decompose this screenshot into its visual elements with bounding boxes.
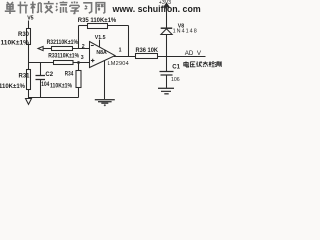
label R30 value 110K±1%	[1, 41, 30, 47]
capacitor C2	[36, 76, 46, 80]
wire diode branch up	[166, 35, 168, 57]
op-amp N8A triangle	[90, 42, 116, 68]
resistor R35	[88, 24, 108, 29]
label C2 value 104	[41, 82, 50, 88]
svg-text:C2: C2	[45, 72, 53, 78]
svg-text:110K±1%: 110K±1%	[0, 84, 26, 90]
feedback wire vertical left	[78, 26, 80, 49]
resistor R36	[136, 54, 158, 59]
label C1 value 106	[171, 77, 180, 83]
svg-text:R35 110K±1%: R35 110K±1%	[78, 18, 117, 24]
wire C2 top	[40, 63, 42, 76]
svg-text:1: 1	[119, 48, 122, 54]
feedback wire top right	[108, 25, 129, 27]
label R35 110K±1%	[78, 18, 117, 24]
机	[30, 2, 42, 14]
diode V8 1N4148	[161, 29, 172, 35]
wire C1 branch down	[166, 57, 168, 72]
pin number 1	[119, 48, 122, 54]
svg-text:104: 104	[41, 82, 50, 88]
feedback wire top left	[79, 25, 88, 27]
svg-text:R33110K±1%: R33110K±1%	[48, 54, 79, 60]
net label V1.5	[95, 35, 106, 41]
wire diode to +3V3	[166, 6, 168, 28]
svg-text:R30: R30	[18, 32, 30, 38]
node A wire to R33 and C2	[29, 62, 54, 64]
svg-text:R36 10K: R36 10K	[136, 48, 159, 54]
流	[56, 1, 67, 13]
capacitor C1	[160, 72, 174, 76]
wire V5 to R30	[28, 21, 30, 29]
power arrow +3V3	[164, 3, 169, 7]
junction node R33/R34	[77, 61, 80, 64]
交	[44, 1, 54, 13]
ground (op-amp)	[95, 100, 115, 104]
svg-text:110K±1%: 110K±1%	[1, 41, 30, 47]
ground (C1)	[158, 88, 174, 94]
feedback wire vertical right	[128, 26, 130, 57]
label R33 110K±1%	[48, 54, 79, 60]
svg-text:106: 106	[171, 77, 180, 83]
wire C1 to ground	[166, 76, 168, 89]
svg-text:110K±1%: 110K±1%	[50, 83, 73, 89]
测	[215, 61, 221, 67]
label R31	[19, 74, 31, 80]
wire op-amp V- down	[104, 60, 106, 99]
wire junction to R34	[78, 63, 80, 71]
svg-text:R34: R34	[65, 71, 74, 77]
学	[70, 1, 79, 13]
resistor R32	[52, 47, 73, 51]
op-amp designator N8A	[96, 50, 107, 56]
resistor R34	[76, 71, 81, 88]
pin number 2	[82, 44, 85, 50]
svg-text:AD_V: AD_V	[185, 50, 202, 57]
label R31 value 110K±1%	[0, 84, 26, 90]
wire R34 to rail	[78, 88, 80, 98]
wire C2 bottom to rail	[40, 80, 42, 98]
wire op-amp output	[114, 56, 136, 58]
svg-text:LM2904: LM2904	[108, 61, 129, 67]
watermark www.schuifron.com	[112, 4, 201, 14]
wire R33 to op-amp pin3	[73, 62, 90, 64]
svg-text:C1: C1	[172, 65, 180, 71]
状	[196, 61, 202, 67]
svg-text:V1.5: V1.5	[95, 35, 106, 41]
wire arrow to R32	[43, 48, 51, 50]
片	[18, 2, 28, 14]
resistor R31	[27, 70, 31, 90]
svg-text:R31: R31	[19, 74, 31, 80]
检	[209, 61, 215, 67]
wire R36 to AD_V	[158, 56, 206, 58]
svg-text:R32110K±1%: R32110K±1%	[47, 40, 79, 46]
压	[190, 62, 195, 67]
svg-text:+3V3: +3V3	[159, 0, 171, 6]
svg-text:3: 3	[81, 55, 84, 61]
input arrow (to R32)	[38, 46, 43, 50]
svg-text:2: 2	[82, 44, 85, 50]
wire V1.5 to op-amp V+	[99, 40, 101, 48]
wire R30 to R31	[28, 45, 30, 70]
watermark 单片机交流学习网	[5, 1, 105, 14]
label C1	[172, 65, 180, 71]
svg-text:www. schuifron. com: www. schuifron. com	[112, 4, 201, 14]
网	[96, 3, 105, 14]
resistor R30	[27, 29, 31, 45]
label +3V3	[159, 0, 171, 6]
label R34	[65, 71, 74, 77]
label R32 110K±1%	[47, 40, 79, 46]
label 电压状态检测	[184, 61, 221, 67]
net label V5	[27, 16, 33, 22]
part label LM2904	[108, 61, 129, 67]
svg-text:N8A: N8A	[96, 50, 107, 56]
net label AD_V	[185, 50, 202, 57]
label R36 10K	[136, 48, 159, 54]
svg-text:1N4148: 1N4148	[173, 28, 198, 34]
op-amp minus sign	[91, 45, 94, 47]
态	[203, 61, 208, 67]
ground rail wire	[29, 97, 79, 99]
电	[184, 61, 189, 67]
resistor R33	[54, 61, 74, 65]
单	[5, 2, 16, 14]
label R30	[18, 32, 30, 38]
pin number 3	[81, 55, 84, 61]
label R34 value 110K±1%	[50, 83, 73, 89]
label C2	[45, 72, 53, 78]
wire R31 to ground rail	[28, 90, 30, 99]
ground arrow (left)	[26, 99, 32, 105]
label 1N4148	[173, 28, 198, 34]
习	[83, 3, 91, 13]
label V8	[178, 23, 184, 29]
wire R32 to op-amp pin2	[73, 48, 90, 50]
diode cathode bar	[161, 27, 173, 29]
op-amp plus sign	[91, 59, 95, 63]
